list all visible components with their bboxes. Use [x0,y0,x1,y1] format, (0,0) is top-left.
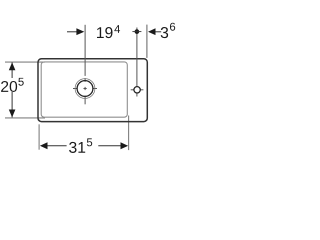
extension line bottom-left vertical (315 left reference) [38,124,40,149]
washbasin outer outline [38,59,147,122]
dimension point marker at tap axis [135,29,140,34]
tap hole circle [134,87,140,93]
dimension 194 label [97,27,113,38]
dimension 205 line upper segment [11,62,13,78]
dimension 205 label [1,81,17,92]
drain dark ring [77,81,93,97]
extension line bottom-left (205 bottom reference) [5,117,45,119]
dimension 205 bottom arrowhead [9,110,16,118]
dimension 315 right tail [98,145,121,147]
drain outer ring [75,79,95,99]
dimension 36 label [161,27,168,38]
extension line top-right vertical (36 reference) [146,25,148,58]
dimension 194 arrowhead [76,28,84,35]
tap hole centerline vertical [136,28,138,87]
dimension 205 top arrowhead [9,62,16,70]
extension line top-left (205 top reference) [5,61,45,63]
dimension 315 left tail [47,145,66,147]
dimension 315 right arrowhead [121,142,129,149]
drain centerline vertical segments [84,25,86,76]
dimension 205 line lower segment [11,92,13,117]
dimension 194 leader tail [67,31,77,33]
tap hole centerline horizontal [131,89,134,91]
dimension 315 label [69,142,85,153]
extension line bottom-right vertical (315 right reference) [128,116,130,151]
washbasin inner bowl outline [41,62,127,117]
dimension 315 left arrowhead [40,142,48,149]
dimension 36 arrowhead [148,28,156,35]
drain centerline horizontal segments [73,88,77,90]
dimension 36 leader tail [155,31,161,33]
